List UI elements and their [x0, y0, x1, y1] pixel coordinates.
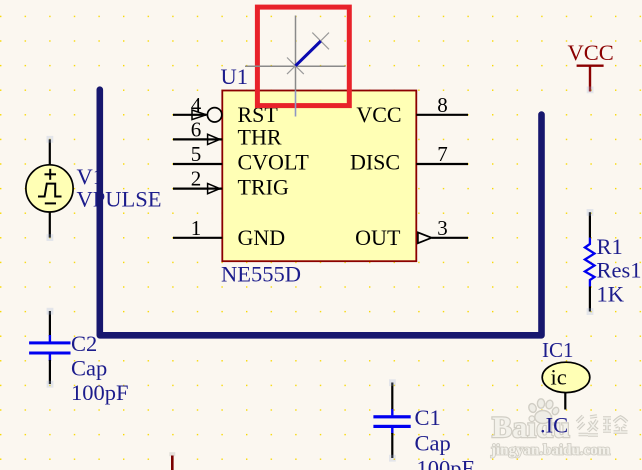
directive IC1 (.IC initial condition) [542, 362, 590, 409]
pin 8 VCC [416, 93, 468, 117]
wire [589, 287, 591, 312]
wire [391, 383, 393, 411]
wire: thick blue net V1 to VCC (U shape) [100, 90, 542, 336]
wire being drawn (blue diagonal) [296, 41, 321, 66]
wire [49, 139, 51, 165]
svg-text:R1: R1 [597, 234, 623, 259]
capacitor C2 [29, 308, 70, 388]
svg-text:5: 5 [191, 142, 202, 166]
pin stub (maroon, bottom edge) [169, 452, 175, 470]
svg-text:C1: C1 [415, 405, 441, 430]
svg-text:ic: ic [551, 365, 567, 390]
svg-text:.IC: .IC [540, 413, 568, 438]
svg-text:7: 7 [437, 142, 448, 166]
pin 4 RST [173, 93, 222, 122]
pin 3 OUT [418, 216, 468, 243]
svg-text:100pF: 100pF [71, 380, 129, 405]
svg-text:VCC: VCC [568, 40, 614, 65]
svg-text:jingyan.baidu.com: jingyan.baidu.com [490, 443, 611, 459]
paw icon [527, 399, 560, 424]
capacitor C1 [373, 379, 410, 461]
resistor R1 [585, 209, 595, 315]
pin 6 THR [173, 117, 222, 144]
svg-text:VCC: VCC [356, 102, 401, 127]
pin 5 CVOLT [173, 142, 222, 166]
svg-text:8: 8 [437, 93, 448, 117]
pin 1 GND [173, 216, 222, 240]
svg-text:1K: 1K [597, 282, 625, 307]
svg-text:NE555D: NE555D [221, 262, 301, 287]
pin 2 TRIG [173, 167, 222, 194]
svg-text:3: 3 [437, 216, 448, 240]
svg-text:DISC: DISC [350, 150, 400, 175]
wire [391, 433, 393, 458]
svg-text:GND: GND [238, 225, 286, 250]
svg-text:THR: THR [238, 124, 282, 149]
svg-text:U1: U1 [221, 64, 249, 89]
svg-text:IC1: IC1 [542, 338, 574, 362]
component U1 NE555D body [222, 91, 416, 262]
svg-text:2: 2 [191, 167, 202, 191]
pin 7 DISC [416, 142, 468, 166]
cursor crosshair [245, 16, 346, 117]
svg-text:OUT: OUT [355, 225, 401, 250]
svg-text:Res1: Res1 [597, 258, 642, 283]
watermark Baidu Jingyan [490, 399, 628, 459]
svg-text:VPULSE: VPULSE [77, 187, 162, 212]
svg-text:CVOLT: CVOLT [238, 150, 310, 175]
power port VCC [568, 40, 614, 93]
svg-text:C2: C2 [71, 331, 97, 356]
voltage source V1 [26, 136, 73, 241]
svg-text:4: 4 [191, 93, 202, 117]
annotation: red highlight box [257, 7, 349, 106]
wire [49, 212, 51, 238]
wire [589, 212, 591, 238]
svg-text:6: 6 [191, 117, 202, 141]
wire [49, 311, 51, 336]
svg-text:Cap: Cap [71, 356, 107, 381]
svg-text:100pF: 100pF [417, 456, 475, 470]
svg-text:1: 1 [191, 216, 202, 240]
jingyan glyphs [577, 416, 628, 435]
svg-text:Cap: Cap [415, 431, 451, 456]
wire [564, 393, 566, 410]
svg-text:TRIG: TRIG [238, 175, 289, 200]
wire [49, 360, 51, 384]
